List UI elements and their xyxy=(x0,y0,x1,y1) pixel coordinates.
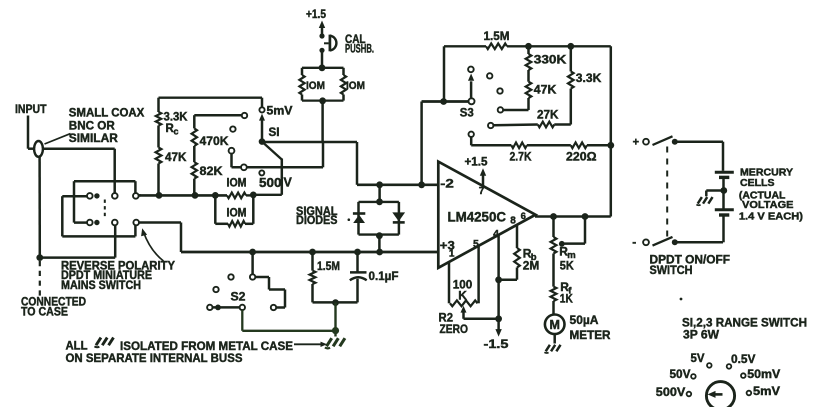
svg-text:CELLS: CELLS xyxy=(740,178,775,189)
svg-text:8: 8 xyxy=(510,216,516,227)
svg-text:1K: 1K xyxy=(560,292,573,306)
svg-text:5mV: 5mV xyxy=(753,384,780,398)
svg-text:BNC OR: BNC OR xyxy=(69,120,116,133)
svg-text:INPUT: INPUT xyxy=(15,104,47,116)
svg-text:7: 7 xyxy=(479,186,485,197)
svg-text:27K: 27K xyxy=(537,108,559,122)
svg-text:1.5M: 1.5M xyxy=(484,29,510,43)
svg-text:IOM: IOM xyxy=(227,208,247,220)
svg-text:SMALL COAX: SMALL COAX xyxy=(69,107,145,120)
svg-text:PUSHB.: PUSHB. xyxy=(345,44,374,56)
svg-text:VOLTAGE: VOLTAGE xyxy=(742,200,794,211)
svg-text:47K: 47K xyxy=(165,150,187,164)
svg-text:SI: SI xyxy=(269,127,280,139)
svg-text:METER: METER xyxy=(570,328,611,342)
svg-text:3.3K: 3.3K xyxy=(576,71,602,85)
svg-text:DIODES: DIODES xyxy=(296,213,338,227)
svg-text:3.3K: 3.3K xyxy=(164,110,188,124)
svg-text:0.1µF: 0.1µF xyxy=(369,269,399,283)
svg-text:S2: S2 xyxy=(231,290,246,304)
svg-text:-2: -2 xyxy=(440,176,454,190)
svg-text:-1.5: -1.5 xyxy=(484,337,509,351)
svg-text:1.5M: 1.5M xyxy=(317,259,340,273)
svg-text:82K: 82K xyxy=(200,164,223,178)
svg-text:2.7K: 2.7K xyxy=(510,150,532,164)
svg-text:-: - xyxy=(632,235,636,249)
svg-text:6: 6 xyxy=(521,211,526,222)
svg-text:+1.5: +1.5 xyxy=(465,157,489,169)
svg-text:50mV: 50mV xyxy=(747,367,780,381)
svg-text:5mV: 5mV xyxy=(267,104,293,118)
svg-text:1.4 V EACH): 1.4 V EACH) xyxy=(739,212,803,223)
svg-text:50V: 50V xyxy=(670,367,691,381)
svg-text:SIMILAR: SIMILAR xyxy=(69,132,119,145)
svg-text:500: 500 xyxy=(259,176,282,190)
svg-text:220Ω: 220Ω xyxy=(566,150,597,164)
svg-text:0.5V: 0.5V xyxy=(731,352,756,366)
svg-text:3P 6W: 3P 6W xyxy=(683,327,719,341)
svg-text:K: K xyxy=(458,289,467,303)
svg-text:5K: 5K xyxy=(560,259,574,273)
svg-text:c: c xyxy=(174,127,179,137)
svg-text:470K: 470K xyxy=(200,134,229,148)
svg-text:SWITCH: SWITCH xyxy=(650,265,693,277)
svg-text:M: M xyxy=(549,318,559,332)
svg-text:2M: 2M xyxy=(523,259,540,273)
svg-text:5V: 5V xyxy=(691,351,705,365)
svg-text:500V: 500V xyxy=(656,385,686,399)
svg-text:IOM: IOM xyxy=(346,80,365,92)
svg-text:MAINS SWITCH: MAINS SWITCH xyxy=(61,280,141,292)
svg-text:50µA: 50µA xyxy=(570,313,599,327)
svg-text:TO CASE: TO CASE xyxy=(21,307,68,319)
svg-text:330K: 330K xyxy=(534,53,567,67)
svg-text:IOM: IOM xyxy=(227,178,247,190)
svg-text:+: + xyxy=(633,136,639,148)
svg-text:+1.5: +1.5 xyxy=(306,9,327,21)
svg-text:LM4250C: LM4250C xyxy=(448,210,507,225)
svg-text:ON SEPARATE INTERNAL BUSS: ON SEPARATE INTERNAL BUSS xyxy=(66,351,243,365)
svg-text:IOM: IOM xyxy=(306,80,325,92)
svg-text:S3: S3 xyxy=(460,105,474,119)
svg-text:V: V xyxy=(284,176,293,190)
svg-text:47K: 47K xyxy=(534,83,557,97)
svg-text:ZERO: ZERO xyxy=(440,322,469,336)
